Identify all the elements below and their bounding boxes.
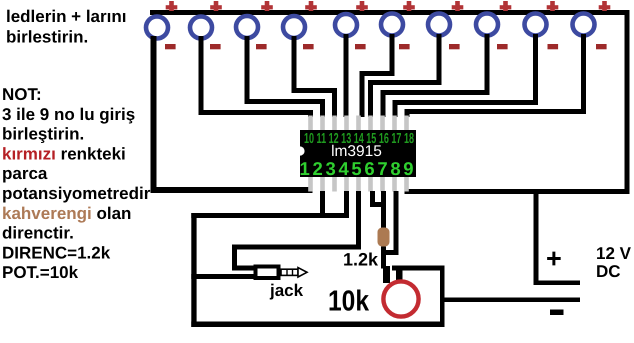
svg-text:7: 7	[377, 158, 387, 179]
wire D6 cathode to pin 14	[360, 34, 395, 117]
label - of D4	[303, 44, 314, 49]
wire D3 cathode to pin 11	[245, 36, 326, 117]
svg-text:NOT:: NOT:	[2, 85, 42, 104]
wire pin 5 to jack	[232, 191, 361, 271]
wire D4 cathode to pin 12	[292, 36, 338, 117]
wire pot right side	[440, 268, 445, 327]
svg-text:+: +	[546, 244, 562, 274]
svg-text:4: 4	[338, 158, 349, 179]
wire pin 2 down	[320, 191, 325, 218]
wire D9 cathode to pin 17	[393, 34, 539, 117]
label - of D1	[165, 44, 176, 49]
jack J1 body	[256, 267, 279, 279]
svg-text:2: 2	[313, 158, 323, 179]
wire D8 cathode to pin 16	[381, 34, 490, 117]
LED D1	[146, 17, 168, 39]
label + of D8	[500, 1, 512, 11]
wire ground left vertical	[191, 213, 196, 327]
label + of D7	[452, 1, 464, 11]
label - of D9	[548, 44, 559, 49]
wire right edge V+	[625, 10, 630, 194]
LED D3	[236, 16, 258, 38]
svg-text:jack: jack	[269, 281, 304, 300]
svg-text:5: 5	[351, 158, 361, 179]
wire supply + drop	[534, 194, 581, 285]
svg-text:birleştirin.: birleştirin.	[2, 125, 84, 144]
svg-text:kırmızı renkteki: kırmızı renkteki	[2, 144, 126, 163]
label + of D6	[403, 1, 415, 11]
LED D9	[525, 14, 547, 36]
wire V+ top rail	[150, 10, 630, 15]
note NOT block	[2, 85, 151, 282]
IC U1 lm3915 pins top	[308, 116, 409, 131]
LED D8	[476, 14, 498, 36]
svg-text:1.2k: 1.2k	[343, 250, 379, 270]
wire pins 6-7 link	[370, 191, 386, 228]
LED D6	[381, 14, 403, 36]
svg-text:parca: parca	[2, 164, 48, 183]
label - of D5	[355, 44, 366, 49]
wire D5 cathode to pin 13	[344, 34, 349, 117]
wire D7 cathode to pin 15	[368, 34, 442, 117]
label + of D2	[210, 1, 222, 11]
IC U1 lm3915 pins bottom	[308, 176, 409, 192]
svg-text:8: 8	[390, 158, 400, 179]
svg-text:POT.=10k: POT.=10k	[2, 263, 79, 282]
label - of D3	[256, 44, 267, 49]
IC U1 lm3915 body	[300, 130, 416, 177]
LED D2	[190, 17, 212, 39]
label - supply	[550, 310, 564, 316]
LED D10	[573, 14, 595, 36]
label + of D1	[166, 1, 178, 11]
label - of D6	[399, 44, 410, 49]
svg-text:ledlerin + larını: ledlerin + larını	[6, 7, 126, 26]
label + of D3	[261, 1, 273, 11]
svg-text:6: 6	[364, 158, 374, 179]
label + of D10	[599, 1, 611, 11]
label - of D10	[596, 44, 607, 49]
wire pins 2-4 bus	[191, 191, 349, 218]
wire D10 cathode to pin 18	[405, 34, 587, 117]
svg-text:kahverengi olan: kahverengi olan	[2, 204, 131, 223]
wire bottom V+ rail to pin 9	[405, 189, 630, 194]
label + of D4	[305, 1, 317, 11]
svg-text:potansiyometredir: potansiyometredir	[2, 184, 151, 203]
wire pot top rail	[392, 266, 445, 284]
wire D2 cathode to pin 10	[199, 36, 314, 117]
IC U1 notch	[295, 146, 304, 155]
svg-text:1: 1	[300, 158, 310, 179]
label - of D7	[449, 44, 460, 49]
LED D7	[428, 14, 450, 36]
wire R1 to pot wiper	[381, 247, 399, 284]
wire ground to jack sleeve	[191, 274, 254, 279]
wire supply - from pot	[445, 298, 581, 303]
resistor R1 1.2k	[378, 228, 390, 247]
wire pin 8 down	[394, 191, 399, 255]
svg-text:direnctir.: direnctir.	[2, 224, 74, 243]
label - of D8	[497, 44, 508, 49]
svg-text:DC: DC	[596, 262, 621, 281]
potentiometer POT1 10k	[383, 281, 418, 316]
wire ground bottom rail	[191, 322, 444, 328]
svg-text:12 V: 12 V	[596, 244, 632, 263]
svg-text:3: 3	[325, 158, 335, 179]
label + of D9	[547, 1, 559, 11]
label - of D2	[210, 44, 221, 49]
IC U1 bottom pin numbers 1-9	[300, 158, 414, 179]
svg-text:3 ile 9 no lu giriş: 3 ile 9 no lu giriş	[2, 105, 135, 124]
jack J1 tip	[281, 268, 307, 277]
LED D5	[335, 14, 357, 36]
svg-text:DIRENC=1.2k: DIRENC=1.2k	[2, 243, 111, 262]
LED D4	[283, 16, 305, 38]
wire D1 cathode to pin 1	[151, 36, 313, 193]
label + of D5	[356, 1, 368, 11]
svg-text:10k: 10k	[328, 286, 370, 318]
svg-text:birlestirin.: birlestirin.	[6, 27, 88, 46]
svg-text:9: 9	[403, 158, 413, 179]
